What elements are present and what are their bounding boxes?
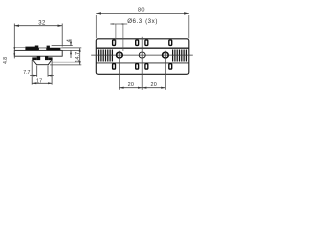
groove line between tabs	[39, 47, 47, 49]
svg-text:7.7: 7.7	[23, 70, 30, 76]
T-stem chamfer left	[33, 60, 37, 65]
dim 80 arrow left	[96, 12, 101, 14]
dim 14.7 arrow bottom	[79, 61, 81, 65]
dim 17 arrow right	[48, 82, 52, 84]
callout arrow right-pointing	[110, 23, 113, 25]
groove inner edge right	[45, 48, 47, 51]
svg-text:20: 20	[151, 82, 158, 88]
dim 4 line bottom + arrow up	[70, 50, 72, 58]
dim 4.8 arrow top (down, tip at plate top)	[13, 47, 15, 50]
dim 4.8 arrow bottom (down, tip at plate bottom)	[13, 53, 15, 56]
body outline	[96, 39, 189, 75]
T-stem chamfer right	[48, 60, 51, 65]
dim 17 extension right	[51, 60, 53, 85]
dim 17 line	[32, 82, 52, 84]
dim 80 extension right	[188, 15, 190, 38]
svg-text:4.8: 4.8	[3, 57, 9, 64]
hole 3 vertical extension (to 20 dim)	[164, 51, 166, 90]
dim 80 line	[96, 12, 189, 14]
svg-text:Ø6.3 (3x): Ø6.3 (3x)	[127, 18, 158, 25]
hole 3	[163, 52, 169, 58]
serration left	[99, 50, 113, 62]
center line horizontal	[91, 54, 193, 56]
hole 2	[139, 52, 145, 58]
slot top 2	[136, 40, 139, 45]
dim 7.7 line left + arrow	[30, 75, 37, 77]
dim 4.8 line (on plate left edge)	[13, 50, 15, 59]
dim 14.7 extension bottom (foot bottom)	[50, 64, 81, 66]
slot bottom 4	[169, 64, 172, 69]
dim 20 arrows at 119.4	[119, 87, 123, 89]
dim 14.7 line	[79, 48, 81, 65]
T-stem flare left (thick)	[32, 57, 36, 60]
callout extension left (hole1 left edge)	[115, 24, 117, 44]
dim 17 extension left	[31, 60, 33, 85]
slot top 1	[113, 40, 116, 45]
callout extension right (hole1 right edge)	[122, 24, 124, 51]
groove inner edge left	[38, 48, 40, 51]
tab right (black claw)	[47, 46, 61, 51]
dim 20 arrows at 142.2 (both sides)	[138, 87, 142, 89]
svg-text:32: 32	[38, 21, 46, 27]
dim 4 extension bottom (plate top)	[62, 49, 79, 51]
dim 4 line top + arrow down	[70, 39, 72, 45]
tab left (black claw)	[25, 46, 38, 51]
hole 2 vertical center line	[141, 37, 143, 90]
dim 80 extension left	[95, 15, 97, 38]
dim 7.7 extension left	[36, 66, 38, 77]
band top line	[96, 47, 189, 49]
slot bottom 2	[136, 64, 139, 69]
hole 1	[117, 52, 123, 58]
svg-text:80: 80	[138, 8, 145, 14]
slot top 4	[169, 40, 172, 45]
dim 4 extension top (hook top)	[52, 45, 73, 47]
dim 32 extension right	[61, 24, 63, 47]
dim 17 arrow left	[32, 82, 36, 84]
band bottom line	[96, 62, 189, 64]
svg-text:20: 20	[128, 82, 135, 88]
T-stem neck wall left (thick)	[37, 56, 41, 60]
dim 80 arrow right	[184, 12, 189, 14]
plate (top bar of profile)	[14, 50, 62, 56]
dim 14.7 arrow top	[79, 48, 81, 52]
slot bottom 3	[145, 64, 148, 69]
dim 32 arrow left	[14, 25, 19, 27]
extension line y62	[52, 61, 79, 63]
slot top 3	[145, 40, 148, 45]
serration right	[173, 50, 187, 62]
plate top thin line left segment	[14, 47, 25, 49]
svg-text:17: 17	[36, 78, 43, 84]
T-stem foot bottom	[36, 64, 48, 66]
hole 1 vertical extension (to 20 dim)	[118, 51, 120, 90]
dim 7.7 extension right	[47, 66, 49, 77]
svg-text:14.7: 14.7	[75, 52, 81, 63]
callout arrow left-pointing	[122, 23, 125, 25]
dim 7.7 line right + arrow	[48, 75, 54, 77]
dim 20 arrow at 165.4	[161, 87, 165, 89]
T-stem flare right (thick)	[48, 57, 52, 60]
svg-text:4: 4	[66, 39, 72, 42]
dim 32 line	[14, 25, 62, 27]
dim 20/20 line	[119, 87, 165, 89]
dim 32 extension left	[13, 24, 15, 50]
slot bottom 1	[113, 64, 116, 69]
dim 14.7 extension top (tab top)	[62, 47, 82, 49]
T-stem neck wall right (thick)	[45, 56, 48, 60]
hole callout dim line	[110, 23, 127, 25]
plate top thin line right segment	[60, 47, 62, 49]
dim 32 arrow right	[58, 25, 63, 27]
